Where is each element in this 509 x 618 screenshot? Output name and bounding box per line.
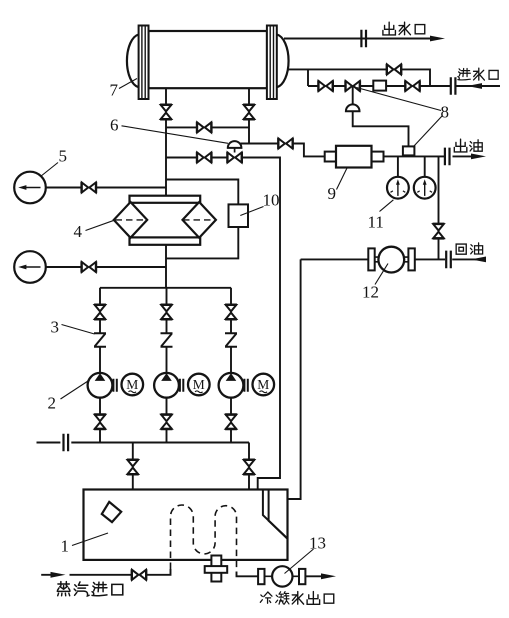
instrument square on inlet line (373, 81, 386, 91)
svg-text:6: 6 (110, 116, 119, 135)
motor 3 (244, 374, 274, 396)
flange on manifold (64, 434, 69, 452)
svg-text:M: M (193, 377, 205, 392)
valve below vessel left (160, 105, 172, 120)
leader 13 (285, 549, 314, 574)
svg-text:M: M (126, 377, 138, 392)
valve on return drop (433, 224, 445, 239)
motor 1 (113, 374, 143, 396)
text: water inlet label (458, 68, 498, 80)
wire: crossover line (166, 126, 249, 128)
wire: gauge 5 lower line (46, 266, 166, 268)
leader 8a (357, 88, 442, 111)
check valve Z riser2 (161, 333, 173, 347)
check valve Z riser1 (94, 333, 106, 347)
cooler 4 (114, 196, 216, 245)
gauge 5 upper (14, 172, 46, 204)
dome of control valve B (346, 104, 360, 111)
valve riser1 top (94, 305, 106, 320)
leader 9 (337, 168, 348, 190)
text: oil return label (456, 243, 482, 254)
flange on oil outlet (445, 148, 450, 166)
valve tank drop 2 (243, 460, 255, 475)
valve on crossover (197, 122, 212, 133)
valve on control line (197, 152, 212, 163)
motor 2 (180, 374, 210, 396)
check valve Z riser3 (225, 333, 237, 347)
flange on water outlet (361, 30, 366, 48)
leader 5 (41, 163, 59, 177)
wire: gauge 11 stubs (398, 156, 425, 176)
wire: riser 2 (166, 288, 168, 443)
steam trap 13 (258, 566, 305, 586)
svg-text:11: 11 (368, 213, 384, 232)
svg-text:M: M (257, 377, 269, 392)
steam inlet line (41, 569, 170, 575)
steam coil (dashed) (171, 505, 237, 571)
svg-text:3: 3 (51, 318, 60, 337)
gauge 11b (414, 177, 436, 199)
svg-text:12: 12 (362, 283, 379, 302)
svg-text:10: 10 (263, 191, 280, 210)
valve on water bypass (387, 64, 402, 75)
oil tank 1 (84, 490, 288, 560)
leader lines (41, 79, 443, 574)
valve tank drop 1 (127, 460, 139, 475)
diamond in tank (102, 502, 121, 522)
flowmeter 12 (368, 247, 415, 273)
condensate line (237, 572, 323, 577)
text: water outlet label (383, 22, 425, 35)
control valve B (345, 80, 360, 91)
square 8 on oil line (403, 146, 415, 155)
square 10 (229, 204, 249, 227)
valve on impulse line (278, 138, 293, 149)
return chute in tank (263, 490, 287, 539)
text: steam inlet label (57, 582, 122, 596)
gauge 11a (387, 177, 409, 199)
wire: right vessel drop (248, 89, 250, 144)
svg-text:2: 2 (48, 394, 57, 413)
svg-text:7: 7 (110, 81, 119, 100)
leader 12 (375, 264, 388, 285)
svg-text:13: 13 (309, 534, 326, 553)
valve inlet 1 (318, 80, 333, 91)
leader 8b (413, 116, 443, 148)
wire: tank drop 1 (132, 443, 134, 490)
pump 2 (154, 373, 179, 398)
valve riser2 top (161, 305, 173, 320)
leader 4 (86, 220, 115, 230)
valve riser3 bottom (225, 415, 237, 430)
cross fitting (205, 556, 228, 582)
wire: outlet water line (284, 38, 432, 40)
digit labels (48, 81, 450, 556)
leader 1 (72, 533, 108, 546)
MAIN CONTENT (37, 39, 501, 500)
svg-text:5: 5 (59, 147, 68, 166)
valve below vessel right (243, 105, 255, 120)
wire: oil outlet line (384, 155, 473, 157)
control valve 6 body (227, 152, 242, 163)
valve on gauge 5 upper line (82, 182, 97, 193)
wire: control valve B stem and signal to square 8 (353, 86, 409, 146)
wire: riser 1 (99, 288, 101, 443)
wire: oil return line (301, 258, 485, 260)
flange on water inlet (451, 77, 456, 95)
wire: impulse line from dome 6 to filter (241, 144, 325, 157)
svg-text:9: 9 (328, 184, 337, 203)
wire: control line with valve 6 (166, 158, 280, 490)
pump 3 (219, 373, 244, 398)
wire: suction manifold (37, 442, 250, 444)
svg-text:4: 4 (74, 222, 83, 241)
wire: gauge 5 upper line (46, 187, 166, 189)
wire: left vessel drop (165, 89, 167, 289)
pump 1 (88, 373, 113, 398)
motor letters (126, 377, 269, 392)
svg-text:8: 8 (441, 103, 450, 122)
arrow oil outlet (471, 154, 486, 160)
wire: riser 3 (230, 288, 232, 443)
valve on steam line (132, 569, 147, 580)
wire: pump header (100, 287, 231, 289)
arrow water inlet (467, 83, 482, 89)
wire: inlet water line (308, 69, 500, 86)
text: oil outlet label (454, 139, 482, 152)
leader 11 (380, 200, 394, 212)
valve riser2 bottom (161, 415, 173, 430)
valve inlet 2 (405, 80, 420, 91)
gauge 5 lower (14, 251, 46, 283)
flange on oil return (446, 251, 451, 269)
arrow steam inlet (51, 572, 66, 578)
text: condensate outlet label (260, 592, 333, 605)
wire: tank drop 2 (248, 443, 250, 490)
svg-text:1: 1 (61, 537, 70, 556)
leader 7 (119, 79, 137, 89)
wire: return vertical into tank (287, 259, 300, 499)
valve riser3 top (225, 305, 237, 320)
valve on gauge 5 lower line (82, 261, 97, 272)
leader 6 (122, 126, 229, 144)
leader 2 (61, 381, 89, 399)
arrow condensate outlet (321, 573, 336, 579)
dome of valve 6 (228, 141, 242, 152)
wire: water bypass line (289, 69, 431, 86)
wire: drop to return valve (438, 156, 440, 259)
filter 9 (325, 146, 384, 168)
leader 10 (240, 207, 263, 216)
valve riser1 bottom (94, 415, 106, 430)
wire: branch to square 10 (166, 180, 238, 259)
arrow water outlet (430, 36, 445, 42)
leader 3 (62, 325, 95, 335)
vessel 7 (127, 26, 289, 100)
arrow oil return (471, 257, 486, 263)
